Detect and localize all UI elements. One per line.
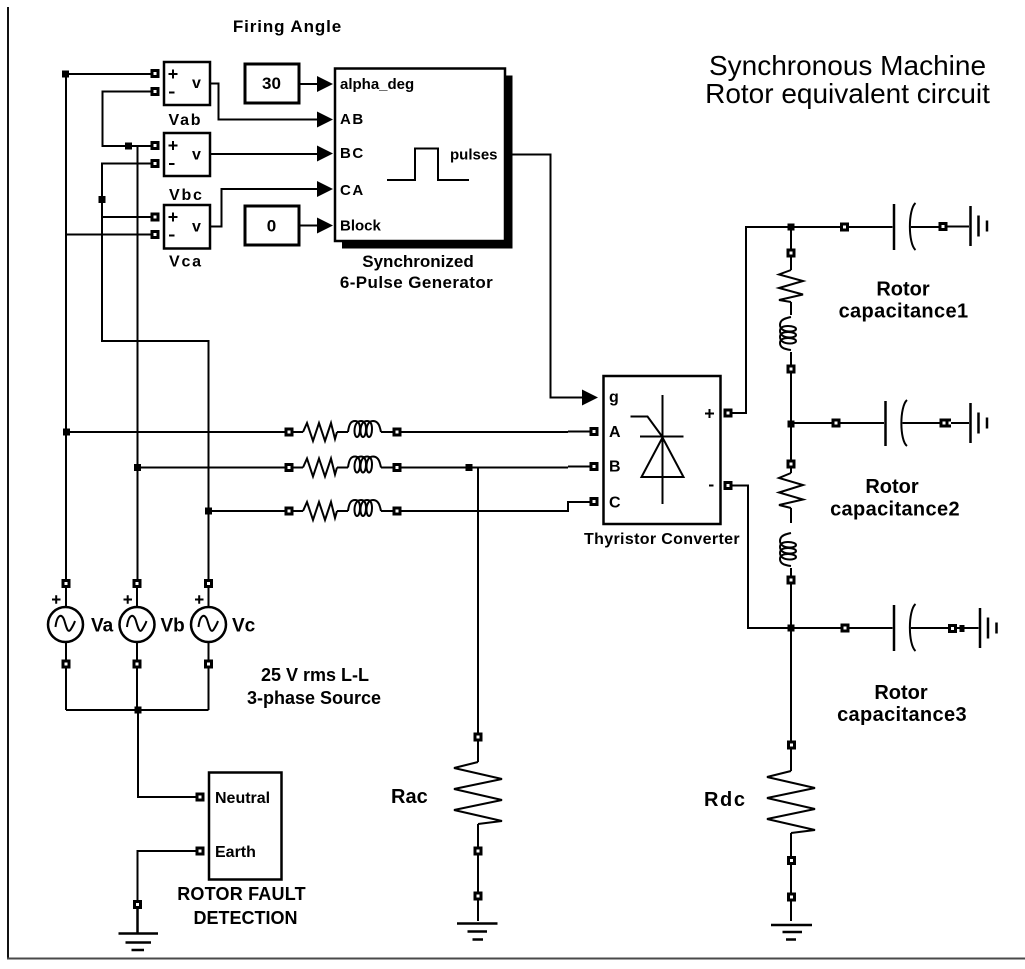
port row B left bbox=[286, 465, 292, 471]
wire Vbc- jog to Vc column bbox=[102, 164, 209, 609]
port row C left bbox=[286, 508, 292, 514]
wire Vab- to Vbc+ bbox=[103, 92, 156, 147]
port rail branch2 top bbox=[788, 461, 794, 467]
source Va sine bbox=[56, 616, 76, 631]
port converter + bbox=[725, 410, 731, 416]
svg-text:Vc: Vc bbox=[232, 616, 256, 637]
source Va circle bbox=[48, 607, 83, 642]
Rac port top bbox=[475, 734, 481, 740]
wire Vbc v out to BC bbox=[210, 153, 318, 155]
resistor row B bbox=[303, 459, 337, 477]
port row C right bbox=[394, 508, 400, 514]
junction row C on Vc column bbox=[205, 508, 212, 515]
page bottom border bbox=[7, 958, 1025, 960]
wire converter - down to bottom node bbox=[732, 486, 841, 629]
arrow into alpha_deg bbox=[317, 76, 333, 92]
wire converter + up to top node bbox=[732, 227, 840, 413]
wire neutral bus bbox=[66, 709, 209, 711]
arrow into g bbox=[582, 390, 598, 406]
svg-text:Vbc: Vbc bbox=[169, 187, 204, 204]
svg-text:Neutral: Neutral bbox=[215, 790, 270, 807]
wire Vab+ from node A bbox=[66, 73, 155, 75]
wire row A mid bbox=[337, 431, 348, 433]
svg-text:Rdc: Rdc bbox=[704, 789, 747, 811]
port rail branch2 bottom bbox=[788, 577, 794, 583]
svg-text:Synchronized: Synchronized bbox=[362, 252, 473, 271]
inductor row A bbox=[348, 421, 381, 437]
svg-text:v: v bbox=[192, 219, 201, 236]
resistor row C bbox=[303, 502, 337, 520]
constant block 30 bbox=[245, 64, 299, 103]
rotor capacitance2 wire left bbox=[791, 422, 884, 424]
wire Vca- from node A bbox=[66, 234, 155, 236]
inductor row C bbox=[348, 500, 381, 516]
page left border bbox=[7, 7, 9, 959]
wire cap2 to ground bbox=[951, 422, 969, 424]
port Vab - bbox=[152, 89, 158, 95]
source Vb port top bbox=[134, 581, 140, 587]
junction row B tap bbox=[466, 464, 473, 471]
arrow into Block bbox=[317, 218, 333, 234]
svg-text:Rotor: Rotor bbox=[876, 279, 930, 301]
voltage measurement Vca bbox=[164, 205, 210, 249]
resistor Rdc bbox=[767, 771, 815, 833]
port converter A bbox=[591, 429, 597, 435]
port row A right bbox=[394, 429, 400, 435]
wire row C right step up to converter C bbox=[381, 502, 590, 511]
Rdc port mid bbox=[789, 858, 795, 864]
port cap1 right bbox=[940, 224, 946, 230]
ground rotated cap3 bbox=[980, 608, 997, 648]
port converter - bbox=[725, 483, 731, 489]
cap3 wire right bbox=[911, 627, 948, 629]
capacitor 1 plates bbox=[893, 204, 896, 250]
wire cap3 to ground bbox=[957, 627, 979, 629]
wire row A right to converter A bbox=[381, 431, 590, 434]
wire Vab v out to AB bbox=[210, 84, 318, 120]
cap3 small mark bbox=[960, 625, 965, 632]
port Vca + bbox=[152, 214, 158, 220]
svg-text:Earth: Earth bbox=[215, 844, 256, 861]
svg-text:ROTOR FAULT: ROTOR FAULT bbox=[177, 884, 306, 904]
ground symbol Rac bbox=[457, 924, 498, 940]
port cap3 left bbox=[842, 625, 848, 631]
converter plus sign bbox=[705, 409, 714, 418]
arrow into BC bbox=[317, 146, 333, 162]
junction on Vc column bbox=[99, 196, 106, 203]
port row A left bbox=[286, 429, 292, 435]
svg-text:30: 30 bbox=[262, 74, 281, 93]
junction rail top node bbox=[788, 224, 795, 231]
wire Vca+ bbox=[102, 216, 155, 218]
converter minus sign bbox=[709, 485, 714, 487]
svg-text:capacitance2: capacitance2 bbox=[830, 499, 960, 521]
port rail branch1 bottom bbox=[788, 366, 794, 372]
cap2 wire right bbox=[903, 422, 940, 424]
wire earth to ground bbox=[138, 851, 196, 905]
wire row B mid bbox=[337, 467, 348, 469]
source Vc sine bbox=[199, 616, 219, 631]
source Vb plus bbox=[124, 595, 133, 603]
port converter B bbox=[591, 464, 597, 470]
port earth ground bbox=[135, 902, 141, 908]
svg-text:capacitance1: capacitance1 bbox=[839, 301, 969, 323]
svg-text:Rotor: Rotor bbox=[865, 476, 919, 498]
svg-text:alpha_deg: alpha_deg bbox=[340, 76, 414, 93]
Rac port mid bbox=[475, 848, 481, 854]
junction rail mid node bbox=[788, 421, 795, 428]
svg-text:Thyristor Converter: Thyristor Converter bbox=[584, 531, 740, 548]
svg-text:BC: BC bbox=[340, 145, 365, 162]
port rail branch1 top bbox=[788, 250, 794, 256]
wire Vb bus vertical bbox=[136, 146, 139, 608]
inductor row B bbox=[348, 457, 381, 473]
source Vb bottom stub bbox=[136, 642, 138, 710]
source Va bottom stub bbox=[65, 642, 67, 710]
junction node A top bbox=[62, 71, 69, 78]
pulse waveform icon bbox=[387, 149, 469, 181]
6-pulse generator drop shadow bbox=[342, 76, 513, 249]
inductor rail branch 1 bbox=[780, 317, 796, 350]
port Vab + bbox=[152, 71, 158, 77]
port cap2 right bbox=[941, 420, 947, 426]
voltage measurement Vbc bbox=[164, 133, 210, 176]
junction on Vbc+ wire bbox=[125, 143, 132, 150]
port cap1 left bbox=[842, 224, 848, 230]
svg-text:AB: AB bbox=[340, 111, 365, 128]
port Earth bbox=[197, 848, 203, 854]
thyristor symbol bbox=[631, 395, 684, 504]
source Vc bottom stub bbox=[208, 642, 210, 710]
svg-text:CA: CA bbox=[340, 182, 365, 199]
resistor rail branch 1 bbox=[779, 270, 803, 302]
port converter C bbox=[591, 499, 597, 505]
wire row B left bbox=[138, 467, 303, 469]
cap2 colon marks bbox=[948, 419, 951, 422]
wire 0 to Block bbox=[299, 225, 318, 227]
junction row A on Va bus bbox=[63, 429, 70, 436]
junction rail bottom node bbox=[788, 625, 795, 632]
source Vc port top bbox=[206, 581, 212, 587]
svg-text:C: C bbox=[609, 495, 621, 512]
wire cap1 to ground bbox=[948, 226, 970, 228]
arrow into AB bbox=[317, 112, 333, 128]
resistor Rac bbox=[454, 762, 502, 824]
arrow into CA bbox=[317, 181, 333, 197]
voltage measurement Vab bbox=[164, 62, 210, 105]
wire row B down to Rac bbox=[477, 468, 479, 738]
wire pulses to g bbox=[505, 155, 583, 398]
port Vc bottom bbox=[206, 661, 212, 667]
ground symbol Rdc bbox=[771, 925, 812, 940]
source Va port top bbox=[63, 581, 69, 587]
ground rotated cap1 bbox=[971, 206, 988, 246]
source Vb sine bbox=[127, 616, 147, 631]
junction row B on Vb bus bbox=[134, 464, 141, 471]
constant block 0 bbox=[245, 206, 299, 245]
source Vc plus bbox=[195, 595, 204, 603]
ground symbol earth bbox=[119, 909, 159, 950]
svg-text:pulses: pulses bbox=[450, 147, 498, 164]
wire row C mid bbox=[337, 510, 348, 512]
resistor row A bbox=[303, 423, 337, 441]
svg-text:Rac: Rac bbox=[391, 786, 428, 808]
wire row B right to converter B bbox=[381, 467, 590, 468]
svg-text:Va: Va bbox=[91, 616, 114, 637]
6-pulse generator block bbox=[335, 69, 505, 242]
svg-text:Vb: Vb bbox=[161, 616, 185, 637]
capacitor 3 plates bbox=[893, 605, 896, 651]
port cap2 left bbox=[833, 420, 839, 426]
svg-text:Synchronous Machine: Synchronous Machine bbox=[709, 50, 986, 81]
svg-text:Vab: Vab bbox=[169, 112, 203, 129]
svg-text:B: B bbox=[609, 459, 621, 476]
svg-text:3-phase Source: 3-phase Source bbox=[247, 688, 381, 708]
svg-text:A: A bbox=[609, 424, 621, 441]
port Vb bottom bbox=[134, 661, 140, 667]
Rac wire bbox=[477, 741, 479, 921]
cap1 wire right bbox=[911, 226, 939, 228]
wire 30 to alpha_deg bbox=[299, 83, 318, 85]
svg-text:25 V rms L-L: 25 V rms L-L bbox=[261, 665, 369, 685]
svg-text:v: v bbox=[192, 147, 201, 164]
rotor capacitance1 wire left bbox=[849, 226, 893, 228]
junction neutral bus bbox=[135, 707, 142, 714]
svg-text:capacitance3: capacitance3 bbox=[837, 704, 967, 726]
rotor fault detection block bbox=[209, 773, 282, 880]
source Vc circle bbox=[191, 607, 226, 642]
port Vbc + bbox=[152, 143, 158, 149]
svg-text:v: v bbox=[192, 75, 201, 92]
port Va bottom bbox=[63, 661, 69, 667]
capacitor 2 plates bbox=[884, 401, 887, 446]
thyristor triangle bbox=[642, 438, 684, 478]
svg-text:Vca: Vca bbox=[169, 254, 203, 271]
port Neutral bbox=[197, 794, 203, 800]
port Vbc - bbox=[152, 161, 158, 167]
wire neutral down to block bbox=[138, 710, 196, 797]
Rdc port top bbox=[789, 742, 795, 748]
wire rotor rail bbox=[790, 227, 792, 921]
svg-text:0: 0 bbox=[267, 217, 276, 236]
Rac port bottom bbox=[475, 893, 481, 899]
svg-text:Rotor: Rotor bbox=[874, 682, 928, 704]
svg-text:6-Pulse Generator: 6-Pulse Generator bbox=[340, 273, 493, 292]
svg-text:Rotor equivalent circuit: Rotor equivalent circuit bbox=[705, 78, 990, 109]
inductor rail branch 2 bbox=[780, 533, 796, 566]
svg-text:g: g bbox=[609, 389, 619, 406]
source Vb circle bbox=[120, 607, 155, 642]
thyristor converter block bbox=[604, 376, 721, 524]
wire Va bus vertical bbox=[65, 74, 67, 608]
wire row C left bbox=[209, 510, 303, 512]
ground rotated cap2 bbox=[971, 403, 988, 443]
port cap3 right bbox=[950, 626, 956, 632]
rotor capacitance3 wire left bbox=[850, 627, 893, 629]
svg-text:DETECTION: DETECTION bbox=[193, 908, 297, 928]
wire Vca v out to CA bbox=[210, 189, 318, 227]
svg-text:Block: Block bbox=[340, 218, 382, 235]
source Va plus bbox=[52, 595, 61, 603]
wire row A left bbox=[66, 431, 303, 433]
Rdc port bottom bbox=[789, 894, 795, 900]
port Vca - bbox=[152, 232, 158, 238]
port row B right bbox=[394, 465, 400, 471]
resistor rail branch 2 bbox=[779, 473, 803, 508]
svg-text:Firing Angle: Firing Angle bbox=[233, 17, 342, 36]
